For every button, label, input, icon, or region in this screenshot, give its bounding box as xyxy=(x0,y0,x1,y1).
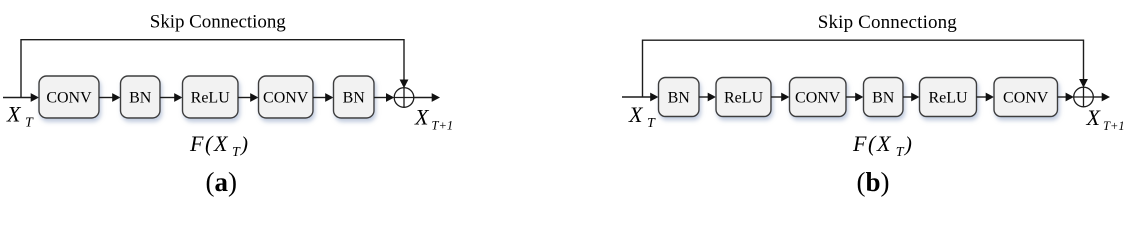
svg-text:T+1: T+1 xyxy=(432,119,454,133)
wire: ReLU to CONV2 (a) xyxy=(238,93,259,102)
block ReLU #2 (b) xyxy=(920,78,977,117)
svg-text:ReLU: ReLU xyxy=(928,90,968,107)
wire: adder output (a) xyxy=(414,93,440,102)
block BN #2 (a) xyxy=(334,76,375,118)
wire: input feed (b) xyxy=(622,93,659,102)
svg-text:Skip Connectiong: Skip Connectiong xyxy=(818,12,958,33)
svg-text:Skip Connectiong: Skip Connectiong xyxy=(150,12,286,33)
svg-text:BN: BN xyxy=(343,90,366,107)
svg-text:F(X: F(X xyxy=(189,131,229,156)
svg-text:): ) xyxy=(240,132,248,156)
adder circle-plus (b) xyxy=(1074,87,1094,107)
svg-text:F(X: F(X xyxy=(852,131,892,156)
block CONV #1 (a) xyxy=(39,76,99,118)
block ReLU (a) xyxy=(183,76,239,118)
wire: skip connection path (a) xyxy=(21,40,408,98)
svg-text:(a): (a) xyxy=(206,167,238,197)
wire: ReLU1 to CONV1 (b) xyxy=(771,93,790,102)
svg-text:CONV: CONV xyxy=(1003,90,1049,107)
label F(X_T) (a) xyxy=(189,131,248,160)
block BN #1 (a) xyxy=(121,76,161,118)
wire: input feed (a) xyxy=(3,93,39,102)
wire: CONV1 to BN2 (b) xyxy=(846,93,864,102)
svg-text:ReLU: ReLU xyxy=(724,90,764,107)
wire: CONV2 to BN2 (a) xyxy=(313,93,334,102)
label F(X_T) (b) xyxy=(852,131,912,160)
svg-text:BN: BN xyxy=(872,90,895,107)
block ReLU #1 (b) xyxy=(716,78,771,117)
svg-text:(b): (b) xyxy=(857,167,890,197)
svg-text:T: T xyxy=(896,145,905,160)
svg-text:X: X xyxy=(628,102,644,127)
svg-text:ReLU: ReLU xyxy=(191,90,231,107)
block CONV #1 (b) xyxy=(790,78,847,117)
wire: BN1 to ReLU1 (b) xyxy=(699,93,716,102)
block CONV #2 (a) xyxy=(259,76,314,118)
block BN #1 (b) xyxy=(659,78,700,117)
node X_T+1 output label (b) xyxy=(1086,105,1125,133)
svg-text:BN: BN xyxy=(668,90,691,107)
node X_T input label (a) xyxy=(6,102,34,131)
block CONV #2 (b) xyxy=(994,78,1058,117)
svg-text:T: T xyxy=(232,145,241,160)
caption (a) xyxy=(206,167,238,197)
svg-text:X: X xyxy=(1086,105,1102,130)
wire: BN2 to ReLU2 (b) xyxy=(903,93,920,102)
svg-text:T: T xyxy=(25,116,34,131)
node X_T input label (b) xyxy=(628,102,656,131)
svg-text:X: X xyxy=(414,105,430,130)
wire: BN2 to adder (a) xyxy=(374,93,394,102)
wire: CONV1 to BN1 (a) xyxy=(99,93,121,102)
svg-text:): ) xyxy=(904,132,912,156)
caption (b) xyxy=(857,167,890,197)
svg-text:CONV: CONV xyxy=(46,90,92,107)
svg-text:T: T xyxy=(647,116,656,131)
svg-text:X: X xyxy=(6,102,22,127)
wire: ReLU2 to CONV2 (b) xyxy=(977,93,995,102)
label: Skip Connectiong (b) xyxy=(818,12,958,33)
label: Skip Connectiong (a) xyxy=(150,12,286,33)
wire: skip connection path (b) xyxy=(643,40,1088,97)
wire: CONV2 to adder (b) xyxy=(1058,93,1074,102)
svg-text:CONV: CONV xyxy=(795,90,841,107)
node X_T+1 output label (a) xyxy=(414,105,453,133)
wire: adder output (b) xyxy=(1093,93,1110,102)
adder circle-plus (a) xyxy=(394,88,414,108)
block BN #2 (b) xyxy=(864,78,904,117)
svg-text:BN: BN xyxy=(129,90,152,107)
svg-text:CONV: CONV xyxy=(263,90,309,107)
wire: BN1 to ReLU (a) xyxy=(160,93,183,102)
svg-text:T+1: T+1 xyxy=(1103,119,1125,133)
